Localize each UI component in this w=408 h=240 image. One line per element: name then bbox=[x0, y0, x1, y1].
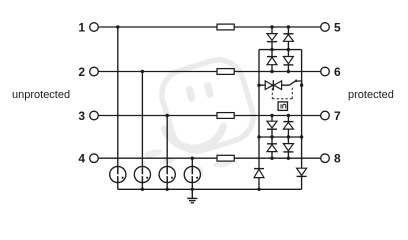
node right rail spark bbox=[300, 84, 303, 87]
thermal disconnect switch bbox=[289, 79, 301, 85]
svg-text:6: 6 bbox=[334, 65, 341, 79]
svg-text:7: 7 bbox=[334, 109, 341, 123]
terminal 2 circle bbox=[90, 67, 99, 76]
terminal 1 circle bbox=[90, 23, 99, 32]
diode D6 bbox=[283, 116, 293, 138]
node line2 branch bbox=[141, 70, 144, 73]
node top connector B bbox=[287, 48, 290, 51]
thermal element box bbox=[278, 102, 287, 111]
wire arrester leads to earth bus bbox=[118, 183, 193, 190]
svg-text:protected: protected bbox=[348, 89, 394, 101]
node row3 A bbox=[270, 114, 273, 117]
thermal coupling dashed bbox=[272, 86, 292, 98]
wire branch line4 to arrester F4 bbox=[191, 158, 193, 173]
svg-text:8: 8 bbox=[334, 152, 341, 166]
node mid left rail bbox=[257, 135, 260, 138]
diode D9 bbox=[254, 169, 264, 190]
resistor R1 bbox=[217, 24, 234, 30]
diode D4 bbox=[283, 50, 293, 72]
node mid B bbox=[287, 135, 290, 138]
wire row 4 bbox=[98, 157, 320, 159]
node line1 branch bbox=[116, 25, 119, 28]
gas discharge tube F3 bbox=[159, 166, 175, 182]
diode D10 bbox=[297, 168, 307, 189]
node bus ground bbox=[191, 188, 194, 191]
node row4 A bbox=[270, 157, 273, 160]
resistor R4 bbox=[217, 155, 234, 161]
wire branch line3 to arrester F3 bbox=[166, 116, 168, 174]
svg-text:unprotected: unprotected bbox=[12, 89, 70, 101]
node row2 A bbox=[270, 70, 273, 73]
node row1 A bbox=[270, 25, 273, 28]
node bus left rail bbox=[257, 188, 260, 191]
diode D2 bbox=[283, 27, 293, 50]
resistor R2 bbox=[217, 69, 234, 75]
wire branch line1 to arrester F1 bbox=[117, 27, 119, 173]
node row2 B bbox=[287, 70, 290, 73]
wire branch line2 to arrester F2 bbox=[141, 72, 143, 174]
gas discharge tube F2 bbox=[134, 166, 150, 182]
terminal 8 circle bbox=[321, 154, 330, 163]
node bus F3 bbox=[166, 188, 169, 191]
node line3 branch bbox=[166, 114, 169, 117]
diode D1 bbox=[267, 27, 277, 50]
wire right rail bbox=[301, 50, 303, 169]
gas discharge tube F4 bbox=[184, 166, 200, 182]
node row3 B bbox=[287, 114, 290, 117]
terminal 7 circle bbox=[321, 111, 330, 120]
surge arrester bidirectional bbox=[265, 80, 281, 90]
svg-text:5: 5 bbox=[334, 21, 341, 35]
node row1 B bbox=[287, 25, 290, 28]
node line4 branch bbox=[191, 157, 194, 160]
node top connector A bbox=[270, 48, 273, 51]
diode D8 bbox=[283, 137, 293, 158]
wire earth bus bbox=[118, 188, 302, 190]
svg-text:2: 2 bbox=[78, 65, 85, 79]
ground bbox=[187, 189, 197, 203]
wire row 3 bbox=[98, 115, 320, 117]
node mid A bbox=[270, 135, 273, 138]
svg-text:3: 3 bbox=[78, 109, 85, 123]
diode D5 bbox=[267, 116, 277, 138]
node left rail spark bbox=[257, 84, 260, 87]
wire mid connector bbox=[259, 136, 302, 138]
wire spark gap row bbox=[259, 84, 289, 86]
terminal 6 circle bbox=[321, 67, 330, 76]
terminal 4 circle bbox=[90, 154, 99, 163]
svg-text:1: 1 bbox=[78, 21, 85, 35]
resistor R3 bbox=[217, 113, 234, 119]
node row4 B bbox=[287, 157, 290, 160]
node bus F2 bbox=[141, 188, 144, 191]
watermark logo bbox=[143, 54, 259, 179]
wire top connector bbox=[259, 49, 302, 51]
gas discharge tube F1 bbox=[110, 166, 126, 182]
wire row 2 bbox=[98, 71, 320, 73]
svg-text:4: 4 bbox=[78, 152, 85, 166]
terminal 3 circle bbox=[90, 111, 99, 120]
terminal 5 circle bbox=[321, 23, 330, 32]
diode D3 bbox=[267, 50, 277, 72]
wire left rail bbox=[258, 50, 260, 169]
diode D7 bbox=[267, 137, 277, 158]
node mid right rail bbox=[300, 135, 303, 138]
wire row 1 bbox=[98, 26, 320, 28]
